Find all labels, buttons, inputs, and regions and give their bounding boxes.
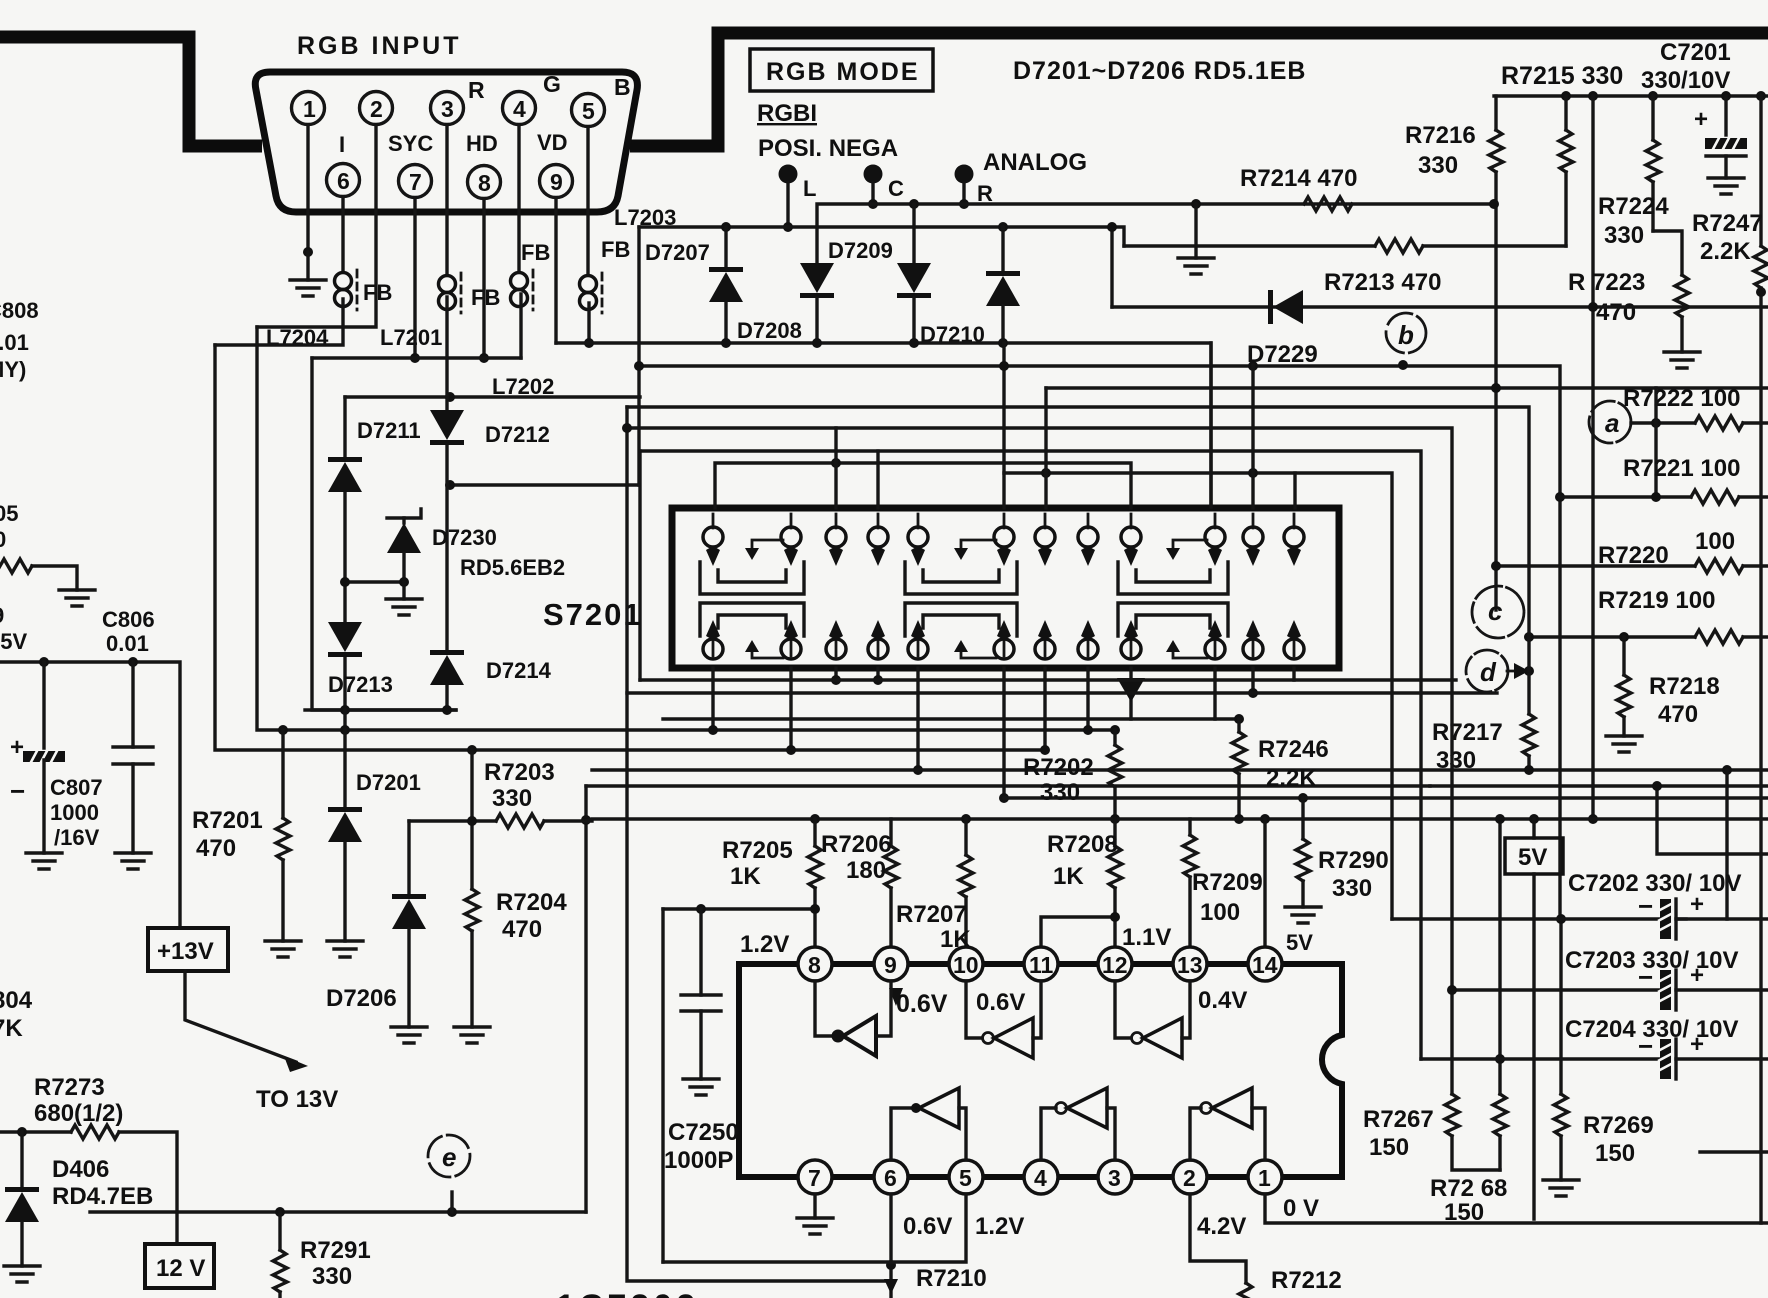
ground D7230 [386,599,422,615]
resistor R7268 [1498,819,1501,1094]
svg-text:1K: 1K [730,863,761,890]
svg-text:R7217: R7217 [1432,719,1503,746]
RGB MODE box [750,49,933,91]
pin 7 [399,165,432,198]
wire R7221 row y497 [1560,495,1691,498]
resistor R7224 [1651,96,1654,140]
thick page border right segment [630,33,1768,146]
svg-text:R7224: R7224 [1598,193,1669,220]
svg-text:330: 330 [1040,779,1080,806]
pin 1 [292,92,325,125]
svg-text:L7201: L7201 [380,325,442,350]
svg-text:SYC: SYC [388,131,433,156]
svg-text:8: 8 [808,952,821,978]
svg-text:0 V: 0 V [1283,1195,1319,1222]
wire top net y204 (D7208/D7209 tops to R7214 row) [817,204,1494,263]
svg-text:2.2K: 2.2K [1700,238,1751,265]
svg-text:330: 330 [1604,222,1644,249]
wire col 452 up [450,1192,453,1212]
svg-text:R7207: R7207 [896,901,967,928]
svg-text:RD5.6EB2: RD5.6EB2 [460,555,565,580]
svg-text:R7222 100: R7222 100 [1623,385,1740,412]
wire top bus y96 [1494,94,1768,97]
pin 5 [572,94,605,127]
wire pin7 down to jog [413,198,416,358]
pin arrows bottom row pointing up [706,620,1301,640]
IC S7201 box [672,508,1339,668]
junction y388 R7216 col [1491,383,1501,393]
wire D7206 to ground [407,929,410,1027]
svg-text:TO 13V: TO 13V [256,1086,338,1113]
resistor R7210 partial [884,1279,898,1294]
S7201 bottom pins [703,620,1304,659]
wire D7206 hang [407,821,410,894]
svg-text:330: 330 [492,785,532,812]
switch group 3 bottom bracket [1118,603,1228,636]
pin 6 [327,164,360,197]
svg-text:7: 7 [409,169,422,195]
svg-text:1000P: 1000P [664,1147,733,1174]
svg-text:L7202: L7202 [492,374,554,399]
svg-text:R7291: R7291 [300,1237,371,1264]
svg-text:D7213: D7213 [328,672,393,697]
staircase col 1421 from y451 [640,451,1421,1059]
wire col 1593 [1591,96,1594,819]
resistor R7247 [1759,96,1762,246]
svg-text:C7250: C7250 [668,1119,739,1146]
svg-text:D7208: D7208 [737,318,802,343]
wire pin2 down [1190,1194,1246,1283]
svg-text:+: + [1690,962,1704,989]
junction D7207 bottom [721,338,731,348]
wire D7209 bottom [912,298,915,343]
ground R7269 [1543,1180,1579,1196]
svg-text:1000: 1000 [50,800,99,825]
wire pin1 0V rail [1265,1194,1768,1223]
diode D7209 [897,263,931,298]
inverter U2 (pins 10-11) [966,981,982,1038]
mesh wire y719 [663,717,1239,720]
resistor R7214 on y204 row [1304,197,1352,211]
ground R7201 [265,941,301,957]
junction a col [1651,418,1661,428]
svg-text:330: 330 [1332,875,1372,902]
junction at y730 [340,725,350,735]
svg-text:R7208: R7208 [1047,831,1118,858]
wire a to R7222 [1631,421,1695,424]
diode D7213 [328,622,362,657]
svg-text:100: 100 [1695,528,1735,555]
pin circles top row [713,514,1294,528]
resistor R7213 [1375,239,1423,253]
svg-text:D7230: D7230 [432,525,497,550]
junction R7217 bottom on y770 [1524,765,1534,775]
junction R7214 right at R7216 col [1489,199,1499,209]
junction 5V box col [1529,814,1539,824]
IC top pins 8-14 [798,947,1282,981]
switch group 1 bottom bracket [700,603,804,636]
junction R7207 top [961,814,971,824]
wire col 663 [661,909,664,1262]
wire col 627 [627,407,891,1281]
svg-text:4: 4 [1034,1165,1047,1191]
junction C [868,199,878,209]
ground R7223 [1664,352,1700,368]
svg-text:D7229: D7229 [1247,341,1318,368]
svg-text:R7219 100: R7219 100 [1598,587,1715,614]
switch group 3 top bracket [1118,562,1228,594]
junction bus R7247 [1756,91,1766,101]
svg-text:FB: FB [521,240,550,265]
svg-text:C807: C807 [50,775,103,800]
junction C807 [39,657,49,667]
svg-text:1C7202: 1C7202 [556,1288,699,1298]
svg-text:R7204: R7204 [496,889,567,916]
junction d col [1524,666,1534,676]
wire net y388 [1046,386,1768,389]
svg-text:5: 5 [582,98,595,124]
junction C7250 top [696,904,706,914]
svg-text:+: + [10,734,24,761]
resistor R7219 [1695,630,1743,644]
svg-text:RD4.7EB: RD4.7EB [52,1183,153,1210]
wire D7207 bottom [724,302,727,343]
svg-text:R: R [977,181,993,206]
junction pin836 [831,675,841,685]
junction D7209 top [909,199,919,209]
svg-text:R7216: R7216 [1405,122,1476,149]
junction L7202 top at col450 [445,392,455,402]
svg-text:R72 68: R72 68 [1430,1175,1507,1202]
wire D7209 top drop [912,204,915,263]
switch group 1 hook arrow [752,540,783,552]
svg-text:100: 100 [1200,899,1240,926]
junction bus R7215 [1561,91,1571,101]
svg-text:D7201~D7206 RD5.1EB: D7201~D7206 RD5.1EB [1013,57,1306,85]
resistor R7218 [1622,637,1625,675]
mesh wire y463 [715,463,1131,508]
svg-text:R7214 470: R7214 470 [1240,165,1357,192]
resistor R7290 [1301,798,1304,839]
svg-text:25V: 25V [0,629,27,654]
wire D7208 bottom [815,298,818,343]
svg-text:1.2V: 1.2V [975,1213,1024,1240]
svg-text:D7206: D7206 [326,985,397,1012]
wire D7230 to ground [402,582,405,599]
svg-text:0.6V: 0.6V [976,989,1025,1016]
resistor partial left edge [0,559,32,573]
wire D7201 hang [343,730,346,807]
wire net y366 [639,366,1560,919]
junction C7204 on col1500 [1495,1054,1505,1064]
mesh col 1253 [1251,365,1254,508]
svg-text:470: 470 [196,835,236,862]
junction pin1253 col at y366 [1248,361,1258,371]
node dot C [864,165,883,184]
svg-text:1.2V: 1.2V [740,931,789,958]
svg-text:150: 150 [1595,1140,1635,1167]
svg-text:D7212: D7212 [485,422,550,447]
diode D7214 [430,650,464,685]
svg-text:R7215 330: R7215 330 [1501,62,1623,90]
resistor R7269 [1559,919,1562,1094]
junction bus R7224 [1648,91,1658,101]
svg-text:680(1/2): 680(1/2) [34,1100,123,1127]
svg-text:R7247: R7247 [1692,210,1763,237]
wire right edge column [1759,288,1762,1223]
pin 3 [431,92,464,125]
svg-text:b: b [1398,320,1414,350]
ground D406 [4,1266,40,1282]
junction R7201 top [278,725,288,735]
wire bottom right corner y1152 [1700,1150,1768,1153]
junction col452 [447,1207,457,1217]
junction pin1004 [999,793,1009,803]
wire left stair col 312 [312,358,456,710]
junction D7213 bottom [340,705,350,715]
svg-text:D7209: D7209 [828,238,893,263]
svg-text:330: 330 [312,1263,352,1290]
junction gnd col on y204 [1191,199,1201,209]
svg-text:D7201: D7201 [356,770,421,795]
svg-text:R7209: R7209 [1192,869,1263,896]
svg-text:RGBI: RGBI [757,100,817,127]
svg-text:6: 6 [884,1165,897,1191]
wire net y343 to S7201 pin [556,343,1211,507]
inverter U3 (pins 12-13) [1115,981,1131,1038]
inductor L7201 [439,273,462,313]
resistor R7222 [1695,416,1743,430]
mesh wire y693 [627,691,1497,694]
junction D7208 bottom [812,338,822,348]
svg-text:6: 6 [337,168,350,194]
svg-text:0: 0 [0,527,6,552]
junction y473 col1046 [1041,468,1051,478]
junction pin713 [708,725,718,735]
svg-text:+: + [1694,106,1708,133]
junction y463 col836 [831,458,841,468]
junction col472 top [467,745,477,755]
ground (below R7214 row) [1178,258,1214,274]
resistor R7209 [1188,819,1191,835]
junction R7291 top [275,1207,285,1217]
ground D7201 [327,941,363,957]
resistor R7208 [1113,819,1116,846]
ground pin1 [306,252,309,280]
svg-text:R7202: R7202 [1023,754,1094,781]
capacitor C7204 row [1421,1057,1660,1060]
wire pin6 down [889,1194,892,1298]
junction 1656 on y497 [1651,492,1661,502]
wire bead520 down to jog [519,294,522,358]
inverter U4 (pins 6-5) [891,1108,916,1160]
junction C806 [128,657,138,667]
capacitor C7201 (electrolytic) [1724,96,1727,135]
wire L7202-net left col down [639,227,640,680]
signal arrow below pin 1131 [1117,678,1145,702]
junction L [783,222,793,232]
wire bead L7203 down [587,303,590,343]
svg-text:12 V: 12 V [156,1255,205,1282]
junction R7219 at col1529 [1524,632,1534,642]
staircase col 1529 from y407 [627,407,1529,671]
resistor R7273 [71,1125,119,1139]
wire pin5 loop [663,1194,966,1262]
ground (left edge) [59,590,95,606]
svg-text:1.1V: 1.1V [1122,924,1171,951]
svg-text:C806: C806 [102,607,155,632]
svg-text:L: L [803,176,816,201]
svg-text:R7212: R7212 [1271,1267,1342,1294]
wire left stair col 257 [257,327,1115,730]
mesh col 1295 [1293,473,1296,508]
svg-text:−: − [10,776,25,806]
pin 4 [503,92,536,125]
svg-text:9: 9 [0,603,4,628]
resistor R7215 [1564,96,1567,130]
wire C dot down [871,183,874,204]
pin11 jog to R7208 [1041,917,1115,964]
node b circled [1386,313,1426,353]
svg-text:−: − [1638,962,1653,992]
svg-text:330: 330 [1418,152,1458,179]
junction pin14 col [1260,814,1270,824]
svg-text:330/10V: 330/10V [1641,67,1730,94]
wire D7207 top drop [724,227,727,267]
wire down to ground [1194,204,1197,258]
switch group 2 bottom bracket [905,603,1017,636]
wire pin8 net to C7250 [663,907,815,910]
group 1 bottom hook [752,650,783,658]
thick page border left segment [0,37,262,146]
resistor R7203 [496,814,544,828]
svg-text:R7213 470: R7213 470 [1324,269,1441,296]
junction col1593 on D7229 row [1588,302,1598,312]
svg-text:3: 3 [1108,1165,1121,1191]
svg-text:RGB MODE: RGB MODE [766,58,920,86]
svg-text:0.01: 0.01 [106,631,149,656]
wire col 1657 to right edge row [1657,786,1768,854]
wire R col 450 (pin3) down through D7212/D7214 [445,297,448,710]
svg-text:1: 1 [1258,1165,1271,1191]
svg-text:/16V: /16V [54,825,100,850]
junction R [959,199,969,209]
mesh wire y786 [586,784,1430,787]
svg-text:R7203: R7203 [484,759,555,786]
inverter U6 (pins 2-1) [1190,1108,1201,1160]
ground C806 [115,853,151,869]
junction diamond y365 [1398,360,1408,370]
pin entry arrows top row [706,546,1301,566]
svg-text:5V: 5V [1286,930,1313,955]
group 2 bottom hook [961,650,996,658]
diode D7230 (zener) [387,509,421,518]
svg-text:2.2K: 2.2K [1266,765,1317,792]
resistor R7204 [465,889,479,931]
svg-text:470: 470 [1658,701,1698,728]
diode D7211 [328,457,362,492]
svg-text:R7290: R7290 [1318,847,1389,874]
diode D7229 [1268,290,1303,324]
svg-text:10: 10 [953,952,979,978]
wire D7210 top drop [1001,227,1004,271]
ground R7204 [454,1027,490,1043]
svg-text:R7218: R7218 [1649,673,1720,700]
capacitor C7250 [699,909,702,995]
junction R7246 top [1234,714,1244,724]
svg-text:R7201: R7201 [192,807,263,834]
wire C806 node y662 [0,662,180,928]
svg-text:0.01: 0.01 [0,330,29,355]
svg-text:ANALOG: ANALOG [983,149,1087,176]
group 3 bottom hook [1173,650,1207,658]
svg-text:D7207: D7207 [645,240,710,265]
junction pin1253 [1248,688,1258,698]
junction D7210 bottom [998,338,1008,348]
box 5V [1532,819,1535,838]
switch group 2 hook arrow [961,540,996,552]
wire left stair col 215 [215,345,1045,750]
svg-text:R7267: R7267 [1363,1106,1434,1133]
junction L7202 bottom at col450 [445,480,455,490]
wire R7203 row y821 [409,819,496,822]
DB9 connector body [255,72,637,212]
capacitor C7203 row [1452,988,1660,991]
mesh col 878 [876,451,879,508]
svg-text:1K: 1K [1053,863,1084,890]
svg-text:8: 8 [478,170,491,196]
svg-text:9: 9 [550,169,563,195]
svg-text:VD: VD [537,130,568,155]
diode D7208 [800,263,834,298]
resistor R7291 [278,1212,281,1250]
junction R7210 [886,1260,896,1270]
ground C7250 [683,1079,719,1095]
wire to ground [32,566,77,590]
resistor R7207 [964,819,967,855]
junction pin918 [913,765,923,775]
svg-text:d: d [1480,657,1497,687]
wire col 1727 [1725,770,1728,919]
junction y770 col 1727 [1722,765,1732,775]
mesh wire y770 long [592,768,1768,771]
wire pin3 down to bead [445,125,448,275]
svg-text:13: 13 [1177,952,1203,978]
junction pin878 [873,675,883,685]
svg-text:7: 7 [808,1165,821,1191]
svg-text:11: 11 [1029,952,1054,978]
junction col472 at y821 [467,816,477,826]
svg-text:FB: FB [601,237,630,262]
wire pin1 down [306,125,309,252]
svg-text:−: − [1638,891,1653,921]
svg-text:9: 9 [884,952,897,978]
junction R7218 top [1619,632,1629,642]
wire pin4 down to bead [517,125,520,272]
wire d arrow to col [1507,670,1529,673]
junction D406 top [17,1127,27,1137]
junction D7210 top [998,222,1008,232]
svg-text:3: 3 [441,96,454,122]
svg-text:B: B [614,74,631,100]
mesh col 1213 from y343 [1209,343,1212,507]
svg-text:C808: C808 [0,298,39,323]
node d circled [1466,650,1508,692]
diode D406 [20,1132,23,1187]
diode D7207 [709,267,743,302]
node dot R [955,165,974,184]
junction pin8 col y909 [810,904,820,914]
